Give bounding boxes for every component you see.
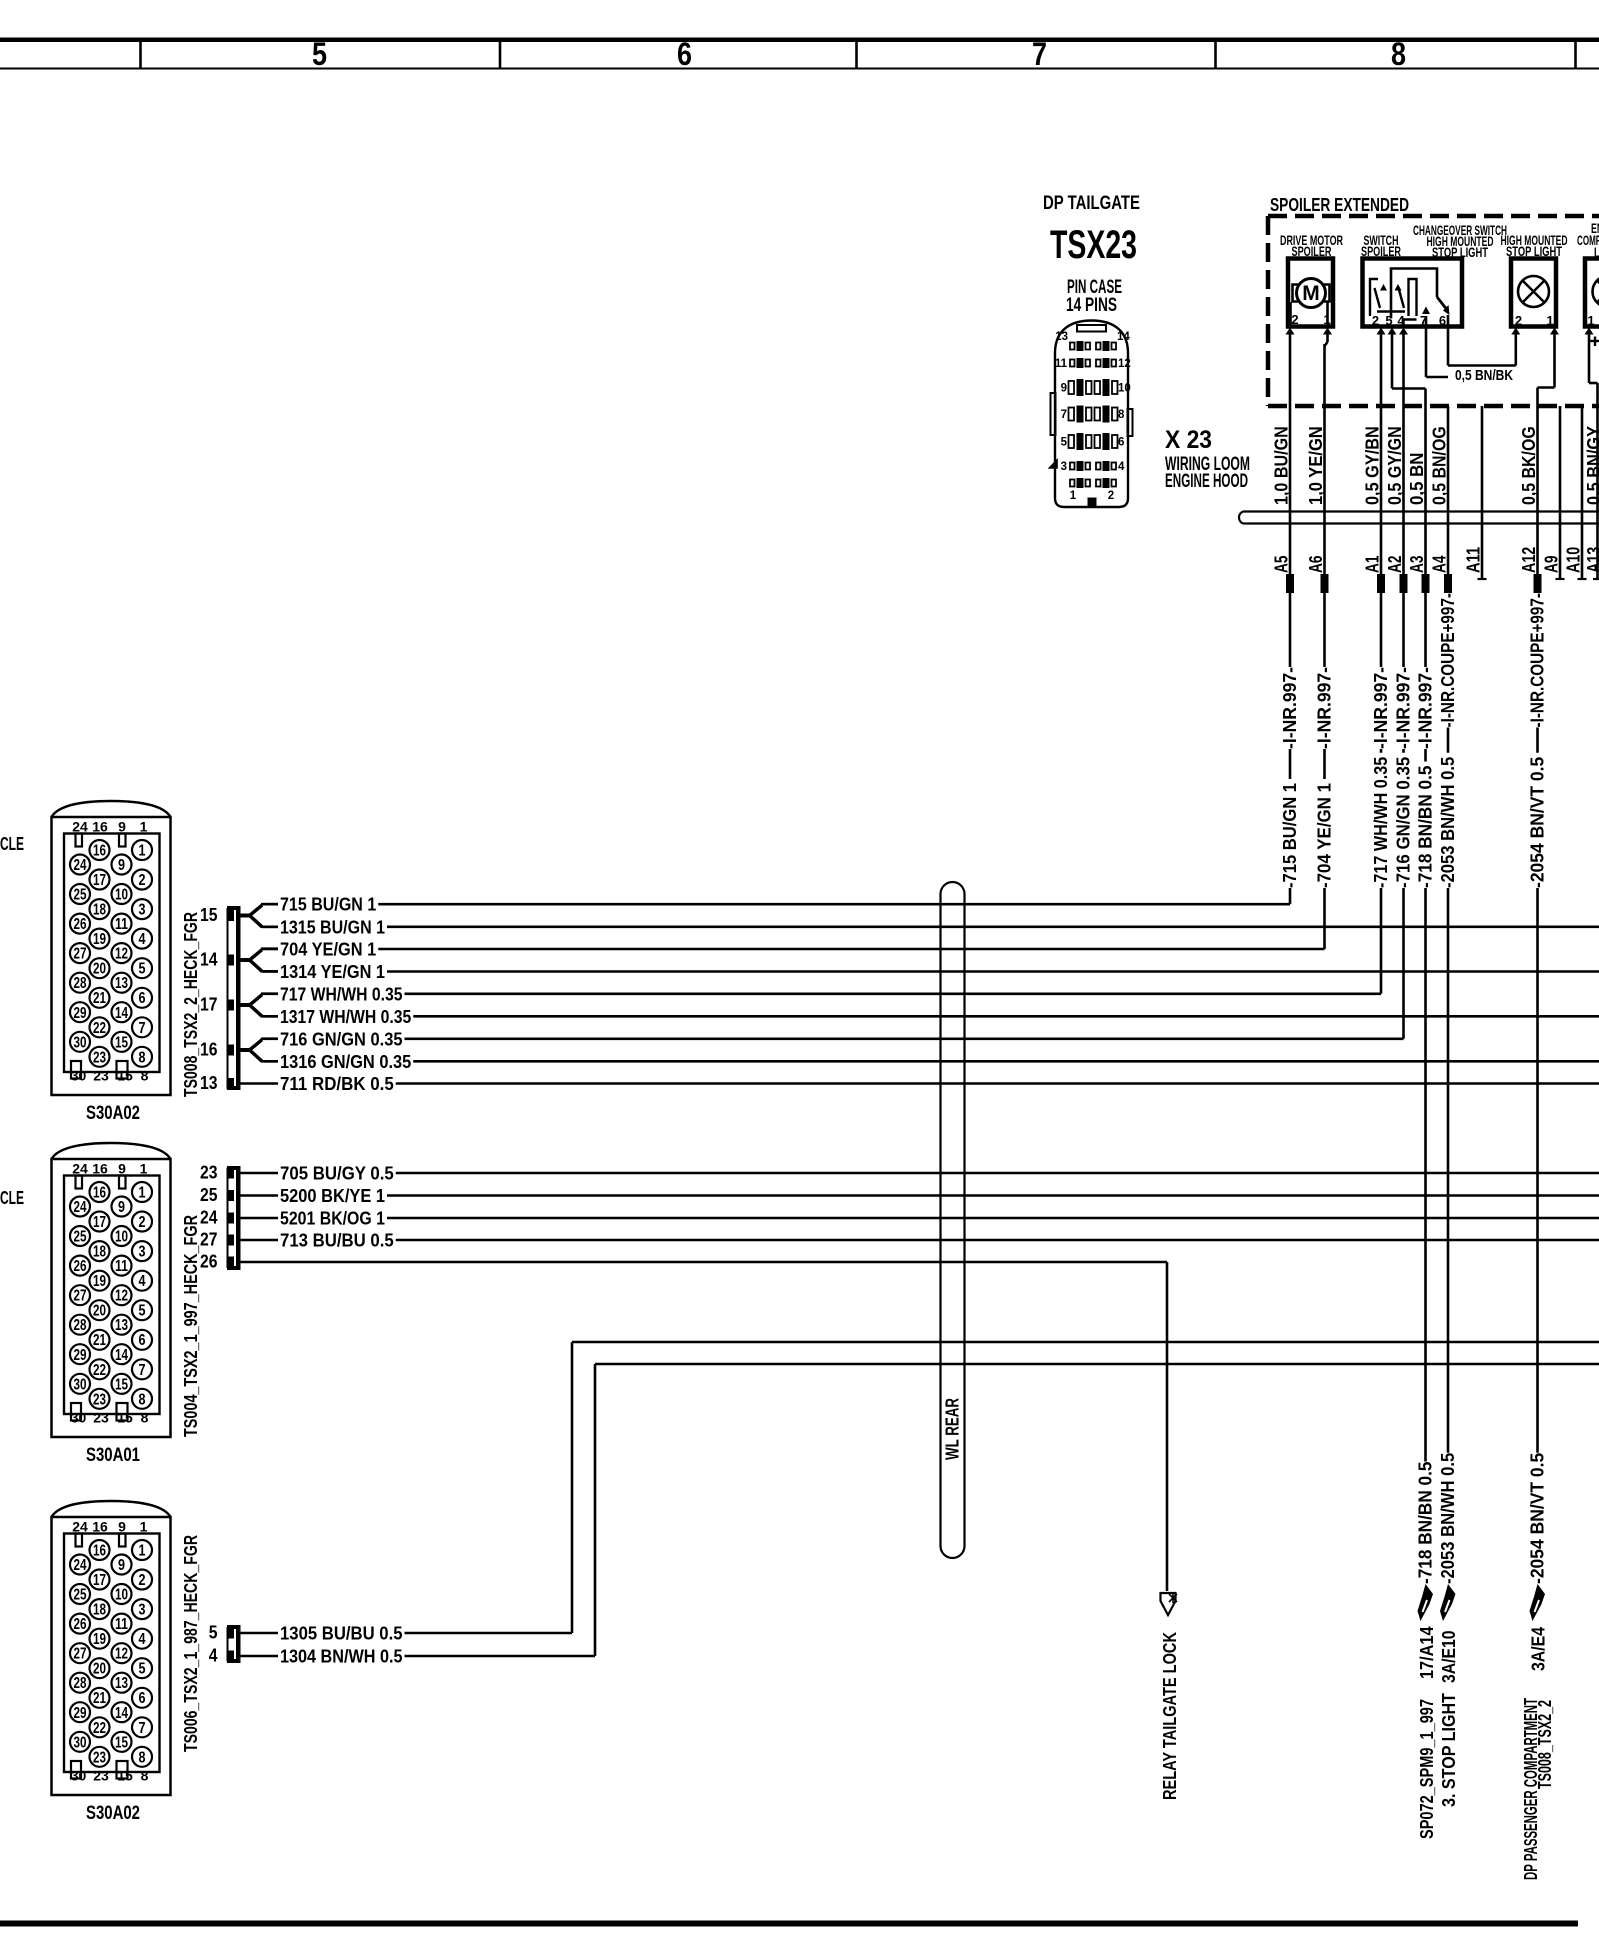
wire 0,5 BN/BK jumper switch pin6 - stop light pin2 — [1447, 327, 1450, 366]
pin case pins 13/14 — [1070, 343, 1075, 350]
svg-text:X 23: X 23 — [1165, 426, 1212, 454]
svg-text:3: 3 — [139, 902, 146, 919]
wire 5200 BK/YE 1 (pin25 -> off page) — [241, 1194, 279, 1197]
wire 705 BU/GY 0.5 (pin23 -> off page) — [241, 1172, 279, 1175]
svg-text:3A/E10: 3A/E10 — [1439, 1631, 1459, 1684]
stub wire A11 — [1481, 406, 1484, 579]
svg-text:11: 11 — [115, 1616, 128, 1633]
svg-text:10: 10 — [1118, 383, 1131, 395]
svg-text:24: 24 — [200, 1208, 218, 1228]
svg-text:-2054 BN/VT 0.5: -2054 BN/VT 0.5 — [1528, 1453, 1548, 1584]
svg-text:DP TAILGATE: DP TAILGATE — [1043, 193, 1140, 214]
svg-text:5: 5 — [139, 961, 146, 978]
svg-text:-718 BN/BN 0.5: -718 BN/BN 0.5 — [1416, 1462, 1436, 1585]
svg-text:9: 9 — [118, 1557, 125, 1574]
svg-text:28: 28 — [74, 1317, 87, 1334]
svg-text:18: 18 — [93, 902, 106, 919]
destination arrow for 718 BN/BN 0.5 — [1418, 1584, 1434, 1621]
svg-text:0,5 BN/GY: 0,5 BN/GY — [1584, 426, 1599, 505]
svg-text:26: 26 — [200, 1252, 218, 1272]
svg-text:10: 10 — [115, 1229, 128, 1246]
connector S30A02 (left multi-pin connector A) — [52, 801, 171, 1095]
wire 1305 vertical riser x=572 — [571, 1342, 574, 1633]
drawing frame: header divider 5 — [1574, 42, 1577, 69]
svg-text:9: 9 — [118, 1199, 125, 1216]
svg-text:4: 4 — [139, 931, 146, 948]
svg-text:18: 18 — [93, 1244, 106, 1261]
svg-text:A5: A5 — [1272, 556, 1292, 574]
svg-text:24: 24 — [74, 857, 87, 874]
svg-text:-I-NR.997-: -I-NR.997- — [1280, 667, 1300, 749]
svg-text:12: 12 — [1118, 358, 1131, 370]
connector S30A02 (left multi-pin connector C) — [52, 1501, 171, 1795]
svg-text:S30A01: S30A01 — [86, 1445, 140, 1466]
svg-text:7: 7 — [139, 1720, 146, 1737]
wire 704 YE/GN 1 (pin14 -> A6) — [263, 948, 278, 951]
svg-text:25: 25 — [74, 887, 87, 904]
svg-text:4: 4 — [1118, 461, 1125, 473]
svg-text:30: 30 — [74, 1734, 87, 1751]
svg-text:-2053 BN/WH 0.5: -2053 BN/WH 0.5 — [1438, 757, 1458, 888]
svg-text:30: 30 — [74, 1376, 87, 1393]
svg-text:27: 27 — [74, 1646, 87, 1663]
svg-text:-717 WH/WH 0.35: -717 WH/WH 0.35 — [1371, 757, 1391, 888]
svg-text:1: 1 — [1546, 313, 1553, 328]
svg-text:CLE: CLE — [0, 1188, 24, 1208]
svg-text:24: 24 — [72, 819, 88, 835]
wire fork pin 17 — [241, 1003, 251, 1007]
svg-text:30: 30 — [71, 1768, 87, 1784]
wire A2 switch pin4 -> 716 GN/GN 0.35 — [1399, 328, 1408, 335]
svg-text:-I-NR.997-: -I-NR.997- — [1416, 667, 1436, 749]
svg-text:704 YE/GN 1: 704 YE/GN 1 — [280, 940, 376, 960]
wire A5 drive-motor pin2 -> 715 BU/GN 1 — [1286, 328, 1295, 335]
wire 1316 GN/GN 0.35 (pin16 -> off page) — [263, 1060, 278, 1063]
pin case pins 3/4 — [1070, 463, 1075, 470]
wire A1 switch pin2 -> 717 WH/WH 0.35 — [1377, 328, 1386, 335]
svg-text:27: 27 — [74, 1288, 87, 1305]
pin case TSX23 housing outline — [1055, 321, 1128, 508]
svg-text:3A/E4: 3A/E4 — [1529, 1627, 1549, 1671]
svg-text:-I-NR.997-: -I-NR.997- — [1315, 667, 1335, 749]
svg-text:716 GN/GN 0.35: 716 GN/GN 0.35 — [280, 1029, 403, 1049]
pin case bottom key — [1088, 498, 1097, 507]
svg-text:22: 22 — [93, 1362, 106, 1379]
svg-text:7: 7 — [139, 1362, 146, 1379]
svg-text:1: 1 — [139, 1543, 146, 1560]
pin strip connector B (pins 23,25,24,27,26) — [227, 1166, 241, 1270]
svg-text:29: 29 — [74, 1705, 87, 1722]
svg-text:A9: A9 — [1542, 556, 1562, 574]
wiring loom tube X23 engine hood — [1239, 512, 1243, 524]
svg-text:15: 15 — [115, 1734, 128, 1751]
stub wire A10 — [1581, 406, 1584, 579]
svg-text:17/A14: 17/A14 — [1417, 1627, 1437, 1680]
svg-text:9: 9 — [118, 819, 126, 835]
wire 1304 BN/WH 0.5 (pin4) — [241, 1655, 279, 1658]
svg-text:2: 2 — [1515, 313, 1522, 328]
wire 717 WH/WH 0.35 (pin17 -> A1) — [263, 992, 278, 995]
dashed function-frame SPOILER EXTENDED — [1268, 214, 1599, 219]
svg-text:2: 2 — [1108, 490, 1114, 502]
svg-text:9: 9 — [118, 1519, 126, 1535]
wire switch pin7 -> A4 — [1425, 327, 1428, 377]
svg-text:17: 17 — [93, 1214, 106, 1231]
svg-text:WL REAR: WL REAR — [943, 1398, 963, 1460]
svg-text:-716 GN/GN 0.35: -716 GN/GN 0.35 — [1394, 757, 1414, 888]
svg-text:M: M — [1302, 282, 1320, 305]
svg-text:3: 3 — [1061, 461, 1067, 473]
svg-text:6: 6 — [1118, 437, 1124, 449]
svg-text:24: 24 — [74, 1557, 87, 1574]
svg-text:A12: A12 — [1519, 547, 1539, 573]
svg-text:-2054 BN/VT 0.5: -2054 BN/VT 0.5 — [1528, 757, 1548, 888]
svg-text:-718 BN/BN 0.5: -718 BN/BN 0.5 — [1416, 766, 1436, 889]
svg-text:TS006_TSX2_1_987_HECK_FGR: TS006_TSX2_1_987_HECK_FGR — [181, 1535, 201, 1752]
svg-text:ENGINE HOOD: ENGINE HOOD — [1165, 471, 1248, 492]
destination arrow for 2054 BN/VT 0.5 — [1530, 1584, 1546, 1621]
svg-text:RELAY TAILGATE LOCK: RELAY TAILGATE LOCK — [1160, 1632, 1180, 1800]
connector S30A01 (left multi-pin connector B) — [52, 1143, 171, 1437]
svg-text:A3: A3 — [1407, 556, 1427, 574]
svg-text:29: 29 — [74, 1005, 87, 1022]
svg-text:6: 6 — [139, 1690, 146, 1707]
svg-text:4: 4 — [139, 1631, 146, 1648]
pin case right side tab — [1128, 409, 1133, 436]
svg-text:8: 8 — [139, 1749, 146, 1766]
svg-text:13: 13 — [115, 1675, 128, 1692]
svg-text:8: 8 — [139, 1049, 146, 1066]
svg-text:12: 12 — [115, 946, 128, 963]
svg-text:SP072_SPM9_1_997: SP072_SPM9_1_997 — [1417, 1699, 1437, 1839]
wire 1305 horizontal run y=1342 -> off page — [572, 1341, 1599, 1344]
svg-text:S30A02: S30A02 — [86, 1803, 140, 1824]
svg-text:3: 3 — [139, 1244, 146, 1261]
wire 1304 horizontal run y=1364 -> off page — [595, 1363, 1599, 1366]
drawing frame: top border rule — [0, 38, 1599, 43]
svg-text:5: 5 — [1061, 437, 1068, 449]
pin case left side tab — [1051, 393, 1056, 435]
svg-text:3. STOP LIGHT: 3. STOP LIGHT — [1439, 1693, 1459, 1807]
pin case keying triangle — [1050, 460, 1058, 468]
wire 715 BU/GN 1 (pin15 -> A5) — [263, 903, 278, 906]
svg-text:23: 23 — [93, 1391, 106, 1408]
svg-text:11: 11 — [1055, 358, 1068, 370]
svg-text:30: 30 — [74, 1034, 87, 1051]
svg-text:1: 1 — [140, 819, 148, 835]
svg-text:16: 16 — [92, 1161, 108, 1177]
svg-text:A2: A2 — [1385, 556, 1405, 574]
wire 711 RD/BK 0.5 (pin13 -> off page) — [241, 1082, 279, 1085]
svg-text:0,5 GY/GN: 0,5 GY/GN — [1385, 426, 1405, 505]
svg-text:5201 BK/OG 1: 5201 BK/OG 1 — [280, 1209, 385, 1229]
svg-text:717 WH/WH 0.35: 717 WH/WH 0.35 — [280, 984, 403, 1004]
svg-text:A4: A4 — [1430, 556, 1450, 574]
svg-text:1: 1 — [1587, 313, 1594, 328]
svg-text:715 BU/GN 1: 715 BU/GN 1 — [280, 895, 376, 915]
svg-text:23: 23 — [93, 1410, 109, 1426]
svg-text:20: 20 — [93, 1303, 106, 1320]
svg-text:10: 10 — [115, 1587, 128, 1604]
svg-text:1: 1 — [139, 843, 146, 860]
svg-text:30: 30 — [71, 1410, 87, 1426]
svg-text:13: 13 — [1055, 331, 1068, 343]
svg-text:21: 21 — [93, 1332, 106, 1349]
svg-text:5: 5 — [1385, 313, 1392, 328]
wire 716 GN/GN 0.35 (pin16 -> A2) — [263, 1038, 278, 1041]
drawing frame: header row bottom line — [0, 68, 1599, 70]
svg-text:29: 29 — [74, 1347, 87, 1364]
svg-text:-715 BU/GN 1: -715 BU/GN 1 — [1280, 783, 1300, 888]
svg-text:23: 23 — [93, 1049, 106, 1066]
svg-text:15: 15 — [117, 1410, 133, 1426]
svg-text:25: 25 — [74, 1229, 87, 1246]
svg-text:13: 13 — [200, 1073, 218, 1093]
svg-text:15: 15 — [117, 1068, 133, 1084]
wire 1315 BU/GN 1 (pin15 -> off page) — [263, 925, 278, 928]
svg-text:14: 14 — [115, 1005, 128, 1022]
svg-text:14: 14 — [115, 1705, 128, 1722]
wire switch pin5 -> A3 — [1388, 328, 1397, 335]
svg-text:6: 6 — [139, 1332, 146, 1349]
svg-text:16: 16 — [93, 1543, 106, 1560]
pin case pins 5/6 — [1069, 435, 1075, 448]
wire 1317 WH/WH 0.35 (pin17 -> off page) — [263, 1015, 278, 1018]
svg-text:21: 21 — [93, 990, 106, 1007]
pin case pins 9/10 — [1069, 381, 1075, 394]
svg-text:8: 8 — [141, 1410, 149, 1426]
svg-text:10: 10 — [115, 887, 128, 904]
svg-text:15: 15 — [115, 1376, 128, 1393]
svg-text:1316 GN/GN 0.35: 1316 GN/GN 0.35 — [280, 1052, 411, 1072]
svg-text:8: 8 — [141, 1768, 149, 1784]
svg-text:2: 2 — [139, 1214, 146, 1231]
wire 1304 vertical riser x=595 — [594, 1364, 597, 1656]
svg-text:17: 17 — [93, 872, 106, 889]
svg-text:14: 14 — [1117, 331, 1130, 343]
svg-text:-I-NR.997-: -I-NR.997- — [1394, 667, 1414, 749]
wire 5201 BK/OG 1 (pin24 -> off page) — [241, 1217, 279, 1220]
svg-text:15: 15 — [117, 1768, 133, 1784]
drawing frame: bottom border rule — [0, 1921, 1578, 1927]
svg-text:16: 16 — [93, 843, 106, 860]
svg-text:5: 5 — [139, 1303, 146, 1320]
svg-text:2: 2 — [1372, 313, 1379, 328]
stub wire A13 — [1596, 406, 1599, 579]
wire A6 pin1 jog — [1323, 328, 1332, 335]
wire A3 switch pin5 -> 718 BN/BN 0.5 arrow — [1424, 406, 1427, 574]
svg-text:28: 28 — [74, 1675, 87, 1692]
svg-text:6: 6 — [1439, 313, 1446, 328]
svg-text:4: 4 — [1397, 313, 1405, 328]
wire 1314 YE/GN 1 (pin14 -> off page) — [263, 970, 278, 973]
svg-text:7: 7 — [1420, 313, 1427, 328]
svg-text:1: 1 — [139, 1185, 146, 1202]
open arrow to relay tailgate lock — [1161, 1593, 1176, 1615]
svg-text:14: 14 — [115, 1347, 128, 1364]
wire 713 BU/BU 0.5 (pin27 -> off page) — [241, 1239, 279, 1242]
svg-text:A13: A13 — [1584, 547, 1599, 573]
svg-text:23: 23 — [93, 1768, 109, 1784]
svg-text:0,5 BN/BK: 0,5 BN/BK — [1455, 368, 1513, 384]
svg-text:A1: A1 — [1363, 556, 1383, 574]
svg-text:4: 4 — [139, 1273, 146, 1290]
wire stop light pin1 -> A12 — [1550, 328, 1559, 335]
svg-text:16: 16 — [93, 1185, 106, 1202]
svg-text:S30A02: S30A02 — [86, 1103, 140, 1124]
svg-text:26: 26 — [74, 1258, 87, 1275]
svg-text:17: 17 — [93, 1572, 106, 1589]
svg-text:SPOILER EXTENDED: SPOILER EXTENDED — [1270, 195, 1409, 215]
svg-text:15: 15 — [200, 905, 218, 925]
wire A12 stop light pin1 -> 2054 BN/VT 0.5 arrow — [1536, 406, 1539, 574]
wire fork pin 15 — [241, 914, 251, 918]
svg-text:1: 1 — [1323, 312, 1330, 327]
svg-text:5200 BK/YE 1: 5200 BK/YE 1 — [280, 1186, 385, 1206]
svg-text:27: 27 — [74, 946, 87, 963]
svg-text:0,5 BN: 0,5 BN — [1407, 453, 1427, 506]
svg-text:19: 19 — [93, 1631, 106, 1648]
svg-text:1,0 YE/GN: 1,0 YE/GN — [1306, 426, 1326, 505]
drawing frame: header divider 3 — [855, 42, 858, 69]
drawing frame: header divider 2 — [499, 42, 502, 69]
svg-text:-I-NR.COUPE+997-: -I-NR.COUPE+997- — [1438, 593, 1458, 728]
wire fork pin 14 — [241, 958, 251, 962]
svg-text:26: 26 — [74, 916, 87, 933]
svg-text:16: 16 — [92, 819, 108, 835]
plus polarity mark — [1590, 340, 1599, 342]
svg-text:11: 11 — [115, 916, 128, 933]
svg-text:4: 4 — [209, 1646, 218, 1666]
svg-text:7: 7 — [1032, 36, 1047, 72]
wire pin26 -> relay tailgate lock (vertical) — [1166, 1262, 1169, 1591]
svg-text:28: 28 — [74, 975, 87, 992]
svg-text:18: 18 — [93, 1602, 106, 1619]
svg-text:0,5 BN/OG: 0,5 BN/OG — [1430, 426, 1450, 505]
svg-text:13: 13 — [115, 975, 128, 992]
svg-text:TS004_TSX2_1_997_HECK_FGR: TS004_TSX2_1_997_HECK_FGR — [181, 1215, 201, 1437]
svg-text:2: 2 — [1291, 312, 1298, 327]
svg-text:24: 24 — [74, 1199, 87, 1216]
svg-text:7: 7 — [139, 1020, 146, 1037]
svg-text:TS008_TSX2_2: TS008_TSX2_2 — [1535, 1700, 1555, 1789]
svg-text:21: 21 — [93, 1690, 106, 1707]
pin case pins 1/2 — [1070, 480, 1075, 487]
svg-text:-I-NR.COUPE+997-: -I-NR.COUPE+997- — [1528, 593, 1548, 728]
svg-text:14 PINS: 14 PINS — [1066, 295, 1117, 316]
svg-text:14: 14 — [200, 950, 218, 970]
svg-text:8: 8 — [1391, 36, 1406, 72]
wire engine compartment light pin1 -> A13 — [1585, 328, 1594, 335]
svg-text:17: 17 — [200, 995, 218, 1015]
wiring loom tube WL REAR — [941, 882, 965, 894]
svg-text:A11: A11 — [1464, 547, 1484, 573]
svg-text:1317 WH/WH 0.35: 1317 WH/WH 0.35 — [280, 1007, 411, 1027]
svg-text:5: 5 — [209, 1623, 218, 1643]
svg-text:23: 23 — [200, 1163, 218, 1183]
svg-text:1305 BU/BU 0.5: 1305 BU/BU 0.5 — [280, 1624, 403, 1644]
wire A4 switch pin6/7 -> 2053 BN/WH 0.5 arrow — [1447, 406, 1450, 574]
svg-text:16: 16 — [200, 1040, 218, 1060]
svg-text:12: 12 — [115, 1646, 128, 1663]
svg-text:26: 26 — [74, 1616, 87, 1633]
wire fork pin 16 — [241, 1048, 251, 1052]
pin strip connector C (pins 5,4) — [227, 1625, 241, 1663]
pin case pins 11/12 — [1070, 360, 1075, 367]
svg-text:3: 3 — [139, 1602, 146, 1619]
svg-text:7: 7 — [1061, 409, 1067, 421]
pin case pins 7/8 — [1069, 408, 1075, 421]
svg-text:13: 13 — [115, 1317, 128, 1334]
svg-text:9: 9 — [1061, 383, 1067, 395]
svg-text:-I-NR.997-: -I-NR.997- — [1371, 667, 1391, 749]
svg-text:30: 30 — [71, 1068, 87, 1084]
svg-text:15: 15 — [115, 1034, 128, 1051]
svg-text:8: 8 — [1118, 409, 1125, 421]
svg-text:TS008_TSX2_2_HECK_FGR: TS008_TSX2_2_HECK_FGR — [181, 912, 201, 1097]
svg-text:9: 9 — [118, 857, 125, 874]
svg-text:TSX23: TSX23 — [1050, 223, 1137, 267]
svg-text:25: 25 — [74, 1587, 87, 1604]
wire 1305 BU/BU 0.5 (pin5) — [241, 1632, 279, 1635]
svg-text:A6: A6 — [1306, 556, 1326, 574]
svg-text:1: 1 — [140, 1161, 148, 1177]
svg-text:11: 11 — [115, 1258, 128, 1275]
svg-text:1304 BN/WH 0.5: 1304 BN/WH 0.5 — [280, 1647, 403, 1667]
svg-text:1: 1 — [1070, 490, 1077, 502]
svg-text:20: 20 — [93, 1661, 106, 1678]
svg-text:23: 23 — [93, 1068, 109, 1084]
svg-text:2: 2 — [139, 872, 146, 889]
svg-text:27: 27 — [200, 1230, 218, 1250]
svg-text:8: 8 — [141, 1068, 149, 1084]
svg-text:12: 12 — [115, 1288, 128, 1305]
svg-text:A10: A10 — [1564, 547, 1584, 573]
svg-text:-2053 BN/WH 0.5: -2053 BN/WH 0.5 — [1438, 1453, 1458, 1584]
svg-text:20: 20 — [93, 961, 106, 978]
svg-text:23: 23 — [93, 1749, 106, 1766]
svg-text:-704 YE/GN 1: -704 YE/GN 1 — [1315, 783, 1335, 888]
pin case top latch notch — [1077, 325, 1106, 332]
svg-text:1: 1 — [140, 1519, 148, 1535]
svg-text:5: 5 — [312, 36, 327, 72]
svg-text:0,5 GY/BN: 0,5 GY/BN — [1363, 426, 1383, 505]
drawing frame: header divider 1 — [139, 42, 142, 69]
svg-text:25: 25 — [200, 1185, 218, 1205]
svg-text:6: 6 — [677, 36, 692, 72]
drawing frame: header divider 4 — [1214, 42, 1217, 69]
svg-text:CLE: CLE — [0, 834, 24, 854]
svg-text:19: 19 — [93, 931, 106, 948]
svg-text:1314 YE/GN 1: 1314 YE/GN 1 — [280, 962, 385, 982]
svg-text:1315 BU/GN 1: 1315 BU/GN 1 — [280, 917, 385, 937]
svg-text:16: 16 — [92, 1519, 108, 1535]
svg-text:1,0 BU/GN: 1,0 BU/GN — [1272, 426, 1292, 505]
svg-text:6: 6 — [139, 990, 146, 1007]
svg-text:24: 24 — [72, 1161, 88, 1177]
svg-text:22: 22 — [93, 1720, 106, 1737]
svg-text:22: 22 — [93, 1020, 106, 1037]
svg-text:2: 2 — [139, 1572, 146, 1589]
stub wire A9 — [1559, 406, 1562, 579]
svg-text:24: 24 — [72, 1519, 88, 1535]
svg-text:5: 5 — [139, 1661, 146, 1678]
pin strip connector A (pins 15,14,17,16,13) — [227, 906, 241, 1090]
svg-text:705 BU/GY 0.5: 705 BU/GY 0.5 — [280, 1164, 394, 1184]
wire pin26 -> relay tailgate lock (horizontal) — [241, 1261, 1168, 1264]
svg-text:0,5 BK/OG: 0,5 BK/OG — [1519, 426, 1539, 505]
svg-text:8: 8 — [139, 1391, 146, 1408]
